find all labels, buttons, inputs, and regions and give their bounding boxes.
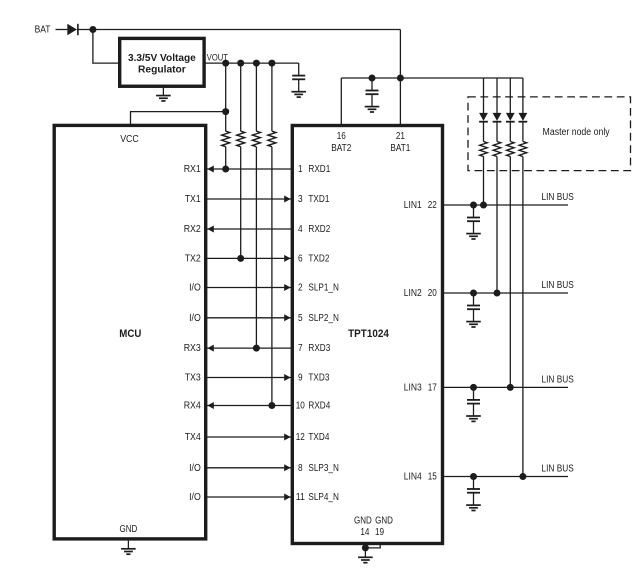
TPT pin name BAT2 — [331, 143, 351, 154]
wire pullup column 3 lower — [255, 147, 257, 348]
svg-text:RXD3: RXD3 — [308, 343, 330, 354]
svg-text:TX3: TX3 — [185, 373, 201, 384]
wire SLP1_N row — [206, 287, 293, 289]
svg-text:6: 6 — [298, 254, 303, 265]
svg-text:LIN2: LIN2 — [404, 288, 422, 299]
resistor R8 master node — [519, 142, 527, 157]
voltage regulator U1 label line2 — [138, 64, 186, 76]
svg-text:TXD2: TXD2 — [308, 254, 329, 265]
svg-text:TPT1024: TPT1024 — [348, 328, 389, 340]
wire SLP2_N row — [206, 317, 293, 319]
TPT pin number 12 TXD4 — [296, 432, 305, 443]
TPT pin number 11 SLP4_N — [296, 492, 305, 503]
wire RXD4 row — [206, 405, 293, 407]
svg-text:11: 11 — [296, 492, 305, 503]
svg-text:GND: GND — [120, 524, 138, 535]
TPT pin name TXD2 — [308, 254, 329, 265]
TPT pin name GND 19 — [375, 515, 393, 526]
wire master column 1 lower — [483, 157, 485, 206]
svg-text:RX3: RX3 — [184, 343, 201, 354]
wire pullup column 4 lower — [271, 147, 273, 406]
ground below C3 — [466, 234, 481, 239]
arrow into MCU RX1 — [207, 166, 213, 173]
svg-text:RXD2: RXD2 — [308, 224, 330, 235]
MCU pin label I/O y467 — [189, 463, 201, 474]
svg-text:TXD4: TXD4 — [308, 432, 329, 443]
diode D2 master node — [479, 113, 488, 122]
TPT pin name GND 14 — [354, 515, 372, 526]
svg-text:I/O: I/O — [189, 463, 201, 474]
svg-text:Regulator: Regulator — [138, 64, 186, 76]
node LIN3 cap junction — [470, 384, 477, 391]
wire SLP4_N row — [206, 496, 293, 498]
wire BAT to diode D1 — [56, 29, 68, 31]
voltage regulator U1 label line1 — [128, 52, 196, 64]
wire VCC from MCU to pullup rail — [131, 112, 226, 126]
MCU pin label I/O y497 — [189, 492, 201, 503]
wire master column 3 mid — [509, 122, 511, 142]
svg-text:RX4: RX4 — [184, 401, 201, 412]
arrow into TPT TXD2 — [284, 255, 290, 262]
arrow into MCU RX3 — [207, 345, 213, 352]
svg-text:LIN3: LIN3 — [404, 383, 422, 394]
wire TXD2 row — [206, 257, 293, 259]
TPT pin number 9 TXD3 — [298, 373, 303, 384]
wire master column 3 upper — [509, 78, 511, 113]
wire pullup column 4 upper — [271, 63, 273, 131]
svg-text:GND: GND — [354, 515, 372, 526]
node VCC tap junction — [222, 108, 229, 115]
svg-text:SLP4_N: SLP4_N — [308, 492, 339, 503]
svg-text:14: 14 — [360, 527, 369, 538]
TPT pin number 17 LIN3 — [428, 383, 437, 394]
resistor R5 master node — [480, 142, 488, 157]
wire pullup column 1 lower — [225, 147, 227, 169]
svg-text:RX1: RX1 — [184, 164, 201, 175]
capacitor C4 on LIN2 — [467, 293, 480, 322]
wire master column 3 lower — [509, 157, 511, 388]
capacitor C3 on LIN1 — [467, 205, 480, 234]
svg-text:MCU: MCU — [119, 328, 141, 340]
wire master column 2 upper — [496, 78, 498, 113]
ground below C2 — [365, 107, 380, 112]
svg-text:LIN BUS: LIN BUS — [542, 464, 575, 475]
TPT pin name RXD2 — [308, 224, 330, 235]
svg-text:SLP3_N: SLP3_N — [308, 463, 339, 474]
MCU pin label RX3 y348 — [184, 343, 201, 354]
TPT pin name SLP3_N — [308, 463, 339, 474]
svg-text:SLP1_N: SLP1_N — [308, 283, 339, 294]
wire BAT rail to master node — [341, 77, 523, 79]
TPT pin name TXD1 — [308, 194, 329, 205]
TPT pin number 16 BAT2 — [337, 131, 346, 142]
TPT pin name LIN4 — [404, 472, 422, 483]
TPT pin number 10 RXD4 — [296, 401, 305, 412]
svg-text:8: 8 — [298, 463, 303, 474]
TPT pin name TXD3 — [308, 373, 329, 384]
svg-text:TX1: TX1 — [185, 194, 201, 205]
arrow into MCU RX2 — [207, 226, 213, 233]
TPT pin number 22 LIN1 — [428, 200, 437, 211]
arrow into TPT SLP1_N — [284, 284, 290, 291]
wire master column 2 lower — [496, 157, 498, 294]
svg-text:TXD1: TXD1 — [308, 194, 329, 205]
wire pullup column 3 upper — [255, 63, 257, 131]
svg-text:2: 2 — [298, 283, 303, 294]
svg-text:GND: GND — [375, 515, 393, 526]
diode D5 master node — [519, 113, 528, 122]
svg-text:Master node only: Master node only — [543, 127, 610, 138]
svg-text:3: 3 — [298, 194, 303, 205]
node pullup 2 junction — [237, 255, 244, 262]
svg-text:I/O: I/O — [189, 313, 201, 324]
resistor R6 master node — [493, 142, 501, 157]
svg-text:4: 4 — [298, 224, 303, 235]
wire master column 4 lower — [522, 157, 524, 477]
svg-text:RX2: RX2 — [184, 224, 201, 235]
capacitor C6 on LIN4 — [467, 477, 480, 506]
TPT pin name RXD3 — [308, 343, 330, 354]
MCU U2 box — [54, 125, 206, 539]
TPT pin name RXD4 — [308, 401, 330, 412]
wire master column 1 upper — [483, 78, 485, 113]
net label LIN BUS 4 — [542, 464, 575, 475]
wire VOUT rail — [204, 62, 299, 64]
svg-text:1: 1 — [298, 164, 303, 175]
TPT pin number 6 TXD2 — [298, 254, 303, 265]
TPT pin name SLP2_N — [308, 313, 339, 324]
arrow into TPT TXD4 — [284, 434, 290, 441]
ground below C5 — [466, 416, 481, 421]
svg-text:17: 17 — [428, 383, 437, 394]
TPT1024 U3 box — [292, 126, 442, 544]
MCU pin VCC label — [120, 134, 139, 145]
wire LIN2 row — [443, 292, 569, 294]
TPT pin name RXD1 — [308, 164, 330, 175]
net label LIN BUS 2 — [542, 280, 575, 291]
ground below MCU — [121, 541, 136, 555]
node pullup 3 junction — [253, 345, 260, 352]
node BAT rail junction at C2 — [369, 75, 376, 82]
wire TPT pin 14 GND stem — [364, 544, 366, 548]
wire master column 2 mid — [496, 122, 498, 142]
resistor R2 pull-up — [237, 131, 245, 147]
arrow into MCU RX4 — [207, 402, 213, 409]
wire RXD1 row — [206, 168, 293, 170]
wire pullup column 2 lower — [240, 147, 242, 259]
node pullup 4 junction — [268, 402, 275, 409]
TPT pin number 19 — [375, 527, 384, 538]
svg-text:TX4: TX4 — [185, 432, 201, 443]
wire TPT pin 19 GND stem — [365, 544, 380, 548]
TPT pin name LIN3 — [404, 383, 422, 394]
MCU pin GND label — [120, 524, 138, 535]
diode D1 — [67, 24, 78, 35]
node GND junction — [362, 544, 369, 551]
arrow into TPT SLP4_N — [284, 494, 290, 501]
svg-text:21: 21 — [396, 131, 405, 142]
ground below regulator — [156, 86, 171, 101]
svg-text:RXD4: RXD4 — [308, 401, 330, 412]
svg-text:LIN4: LIN4 — [404, 472, 422, 483]
svg-text:7: 7 — [298, 343, 303, 354]
node LIN4 cap junction — [470, 473, 477, 480]
node BAT rail junction at BAT1 — [397, 75, 404, 82]
wire SLP3_N row — [206, 467, 293, 469]
svg-text:15: 15 — [428, 472, 437, 483]
master node dashed box — [468, 97, 631, 171]
svg-text:BAT: BAT — [35, 25, 51, 36]
master node label — [543, 127, 610, 138]
TPT pin number 14 — [360, 527, 369, 538]
MCU pin label TX1 y199 — [185, 194, 201, 205]
TPT pin name LIN1 — [404, 200, 422, 211]
MCU pin label I/O y287 — [189, 283, 201, 294]
svg-text:VCC: VCC — [120, 134, 139, 145]
svg-text:12: 12 — [296, 432, 305, 443]
node pullup 1 junction — [222, 166, 229, 173]
wire LIN3 row — [443, 386, 569, 388]
svg-text:10: 10 — [296, 401, 305, 412]
TPT1024 U3 name label — [348, 328, 389, 340]
wire TXD3 row — [206, 377, 293, 379]
diode D3 master node — [493, 113, 502, 122]
arrow into TPT TXD1 — [284, 196, 290, 203]
ground below C4 — [466, 322, 481, 327]
wire BAT2 pin up to rail — [340, 78, 342, 126]
TPT pin number 3 TXD1 — [298, 194, 303, 205]
resistor R7 master node — [507, 142, 515, 157]
svg-text:I/O: I/O — [189, 492, 201, 503]
node LIN1 master junction — [480, 202, 487, 209]
wire top rail from D1 to BAT1 corner — [77, 29, 401, 31]
MCU pin label TX4 y437 — [185, 432, 201, 443]
wire RXD2 row — [206, 228, 293, 230]
node VOUT junction dots — [222, 60, 275, 67]
wire master column 4 mid — [522, 122, 524, 142]
wire pullup column 2 upper — [240, 63, 242, 131]
node LIN1 cap junction — [470, 202, 477, 209]
wire TXD1 row — [206, 198, 293, 200]
MCU pin label RX2 y229 — [184, 224, 201, 235]
ground below TPT — [358, 548, 373, 563]
node LIN4 master junction — [519, 473, 526, 480]
ground below C6 — [466, 505, 481, 510]
wire LIN1 row — [443, 204, 569, 206]
svg-text:RXD1: RXD1 — [308, 164, 330, 175]
wire BAT1 pin vertical — [399, 30, 401, 126]
wire RXD3 row — [206, 347, 293, 349]
TPT pin name BAT1 — [390, 143, 410, 154]
TPT pin number 7 RXD3 — [298, 343, 303, 354]
svg-text:3.3/5V Voltage: 3.3/5V Voltage — [128, 52, 196, 64]
MCU pin label TX3 y377 — [185, 373, 201, 384]
node BAT label — [35, 25, 51, 36]
svg-text:TXD3: TXD3 — [308, 373, 329, 384]
node junction after D1 — [89, 26, 96, 33]
wire master column 1 mid — [483, 122, 485, 142]
net label LIN BUS 3 — [542, 375, 575, 386]
TPT pin number 2 SLP1_N — [298, 283, 303, 294]
net label LIN BUS 1 — [542, 192, 575, 203]
svg-text:BAT2: BAT2 — [331, 143, 351, 154]
TPT pin number 21 BAT1 — [396, 131, 405, 142]
svg-text:5: 5 — [298, 313, 303, 324]
node VOUT label — [207, 52, 228, 63]
arrow into TPT TXD3 — [284, 374, 290, 381]
node LIN2 cap junction — [470, 290, 477, 297]
MCU pin label RX1 y169 — [184, 164, 201, 175]
wire TXD4 row — [206, 436, 293, 438]
MCU U2 name label — [119, 328, 141, 340]
svg-text:BAT1: BAT1 — [390, 143, 410, 154]
wire master column 4 upper — [522, 78, 524, 113]
capacitor C1 on VOUT — [292, 63, 305, 92]
TPT pin name SLP1_N — [308, 283, 339, 294]
node LIN2 master junction — [494, 290, 501, 297]
svg-text:22: 22 — [428, 200, 437, 211]
svg-text:TX2: TX2 — [185, 254, 201, 265]
wire junction down to regulator input — [93, 30, 120, 64]
svg-text:16: 16 — [337, 131, 346, 142]
diode D4 master node — [506, 113, 515, 122]
resistor R3 pull-up — [252, 131, 260, 147]
TPT pin name SLP4_N — [308, 492, 339, 503]
capacitor C5 on LIN3 — [467, 387, 480, 416]
svg-text:9: 9 — [298, 373, 303, 384]
svg-text:LIN BUS: LIN BUS — [542, 375, 575, 386]
arrow into TPT SLP2_N — [284, 314, 290, 321]
TPT pin number 4 RXD2 — [298, 224, 303, 235]
wire pullup column 1 upper — [225, 63, 227, 131]
TPT pin name LIN2 — [404, 288, 422, 299]
resistor R1 pull-up — [222, 131, 230, 147]
svg-text:LIN1: LIN1 — [404, 200, 422, 211]
TPT pin number 15 LIN4 — [428, 472, 437, 483]
svg-text:LIN BUS: LIN BUS — [542, 192, 575, 203]
TPT pin number 1 RXD1 — [298, 164, 303, 175]
arrow into TPT SLP3_N — [284, 464, 290, 471]
TPT pin number 5 SLP2_N — [298, 313, 303, 324]
wire LIN4 row — [443, 476, 569, 478]
voltage regulator U1 box — [120, 38, 204, 86]
svg-text:LIN BUS: LIN BUS — [542, 280, 575, 291]
TPT pin number 8 SLP3_N — [298, 463, 303, 474]
node LIN3 master junction — [507, 384, 514, 391]
ground below C1 — [291, 92, 306, 97]
svg-text:19: 19 — [375, 527, 384, 538]
svg-text:20: 20 — [428, 288, 437, 299]
resistor R4 pull-up — [268, 131, 276, 147]
TPT pin number 20 LIN2 — [428, 288, 437, 299]
MCU pin label TX2 y258 — [185, 254, 201, 265]
capacitor C2 on BAT rail — [366, 78, 379, 107]
TPT pin name TXD4 — [308, 432, 329, 443]
MCU pin label I/O y317 — [189, 313, 201, 324]
svg-text:I/O: I/O — [189, 283, 201, 294]
MCU pin label RX4 y405 — [184, 401, 201, 412]
svg-text:SLP2_N: SLP2_N — [308, 313, 339, 324]
